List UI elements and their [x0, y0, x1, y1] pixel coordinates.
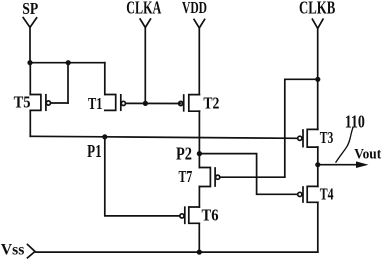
node T5-gate dot: [66, 60, 71, 65]
svg-text:110: 110: [345, 111, 365, 131]
wire T4 source to Vss rail: [317, 202, 319, 252]
arrowhead Vout: [356, 161, 369, 168]
transistor T2: [179, 95, 200, 112]
wire T5 source: [29, 110, 31, 136]
transistor T6: [180, 207, 200, 223]
transistor T4: [298, 186, 318, 202]
svg-text:VDD: VDD: [182, 0, 207, 17]
transistor T3: [298, 129, 318, 147]
node Vout dot: [315, 162, 320, 167]
wire P1 rail to T3 gate: [30, 136, 297, 138]
svg-text:T2: T2: [203, 94, 219, 113]
wire CLKB vertical to T3: [317, 28, 319, 129]
wire T5 drain: [29, 63, 31, 95]
node P1 dot: [102, 134, 107, 139]
wire T7 source to T6 drain: [198, 187, 200, 208]
node SP-rail dot: [27, 60, 32, 65]
wire P1 branch down to T6 gate: [105, 137, 180, 216]
svg-text:T4: T4: [320, 185, 334, 204]
svg-text:P2: P2: [176, 143, 192, 163]
svg-text:CLKA: CLKA: [126, 0, 161, 17]
wire P2 to T7 drain: [198, 154, 200, 168]
svg-text:Vss: Vss: [1, 241, 25, 258]
wire CLKA vertical: [144, 28, 146, 104]
svg-text:SP: SP: [22, 0, 38, 18]
node Vss-T6 dot: [197, 250, 202, 255]
wire T5 gate to top rail: [67, 63, 69, 103]
wire T7 gate up to CLKB: [285, 79, 318, 177]
svg-text:T3: T3: [320, 128, 334, 147]
node P2 dot: [197, 151, 202, 156]
wire Vout arrow line: [318, 164, 358, 166]
transistor T1: [105, 95, 181, 111]
svg-text:CLKB: CLKB: [299, 0, 336, 17]
wire VDD vertical: [198, 28, 200, 95]
svg-text:T1: T1: [88, 94, 103, 113]
wire T3 source to Vout node: [317, 147, 319, 165]
terminal VDD fork: [194, 19, 205, 28]
wire T6 source to Vss: [198, 223, 200, 252]
wire Vout node to T4 drain: [317, 165, 319, 187]
svg-text:T7: T7: [179, 167, 193, 186]
terminal CLKA fork: [140, 19, 150, 28]
wire SP vertical: [29, 27, 31, 62]
wire T2 source to P2: [198, 111, 200, 153]
wire T1 drain: [104, 63, 106, 95]
wire top rail SP to T1: [30, 62, 105, 64]
terminal CLKB fork: [312, 19, 323, 28]
terminal Vss chevron: [28, 245, 36, 258]
svg-text:T5: T5: [14, 92, 31, 111]
terminal SP fork: [23, 18, 36, 28]
wire P2 to branch corner: [199, 154, 296, 195]
svg-text:T6: T6: [202, 206, 219, 225]
node CLKB dot: [315, 77, 320, 82]
transistor T7: [199, 168, 284, 187]
leader curve for 110: [336, 128, 353, 162]
node CLKA-gate dot: [143, 101, 148, 106]
transistor T5: [30, 95, 68, 111]
wire Vss rail: [36, 251, 318, 253]
svg-text:Vout: Vout: [354, 146, 381, 162]
svg-text:P1: P1: [87, 141, 102, 161]
